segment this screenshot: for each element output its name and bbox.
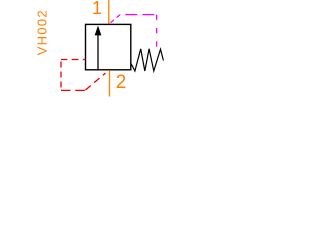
pilot line red: horizontal into box left [61,59,86,61]
pilot line red: left vertical [60,60,62,91]
pilot line magenta: diagonal from port 1 junction [110,15,120,24]
pilot line magenta: top horizontal [120,14,157,16]
flow arrow head [95,26,102,36]
pilot line red: diagonal to port 2 [85,73,106,90]
spring [131,49,163,71]
port line 1 (orange) [108,0,110,24]
svg-text:1: 1 [92,0,102,18]
port line 2 (orange) [109,70,111,96]
svg-text:2: 2 [116,72,127,93]
flow arrow stem [97,34,99,70]
pilot line magenta: vertical down to spring [156,15,158,47]
svg-text:VH002: VH002 [35,9,50,55]
pilot line red: bottom horizontal [61,89,85,91]
valve body box [86,24,131,69]
